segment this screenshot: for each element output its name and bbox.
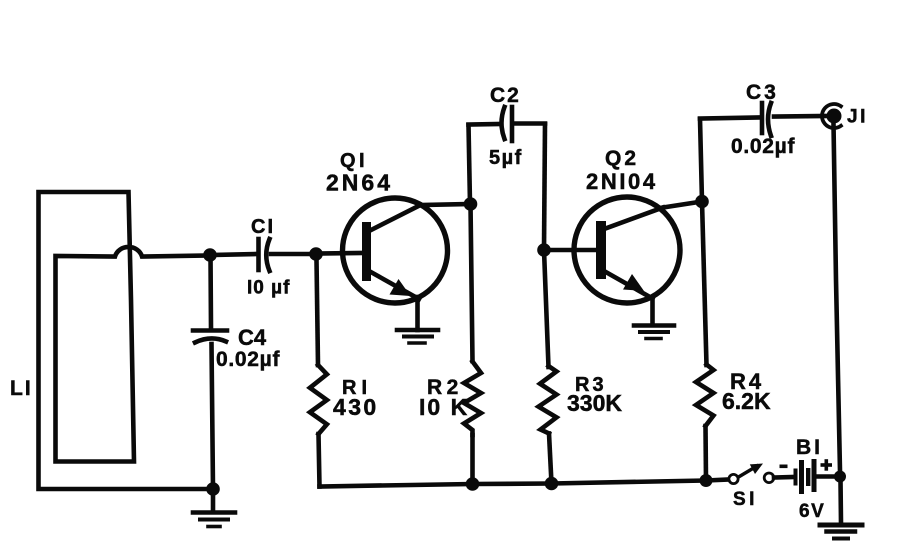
ground (L1/C4) [193,494,235,527]
node A (tuned input junction) [203,248,217,262]
node J (battery + / J1 return) [834,471,846,483]
wire (node down to ground) [838,480,843,523]
wire (switch to battery) [774,475,793,480]
svg-text:BI: BI [796,436,823,459]
wire (Q1 emitter to ground) [415,297,420,330]
capacitor C2 [469,107,546,141]
capacitor C4 [193,331,227,343]
node F (Q2 collector / C3 / R4) [695,195,709,209]
wire (Q2 collector to node) [663,202,702,208]
svg-text:C4: C4 [238,325,267,350]
node C (Q1 base / R1) [309,247,323,261]
capacitor C1 [259,239,270,271]
wire (node up to C3) [700,119,702,202]
wire (node to Q2 base) [544,248,596,253]
wire (Q1 collector to node) [421,204,471,205]
svg-text:Q2: Q2 [605,147,639,170]
ground (Q1 emitter) [397,330,438,343]
ground (battery) [820,525,862,539]
svg-text:I0 µf: I0 µf [247,278,290,299]
jack J1 [822,104,842,128]
resistor R1 [310,260,327,487]
coil L1 [39,192,214,489]
svg-text:330K: 330K [567,390,622,416]
wire (C2 to Q2 base node) [544,124,545,250]
resistor R4 [696,365,714,481]
svg-text:6V: 6V [799,501,825,522]
wire (C4 to ground bus) [212,344,214,489]
svg-text:2N64: 2N64 [326,170,393,196]
node B (ground junction) [206,482,220,496]
svg-text:2NI04: 2NI04 [586,169,658,194]
wire (junction to C4) [208,255,213,328]
node G (R2 to bus) [466,477,480,491]
wire (C1 to base node) [271,252,316,257]
wire (node down to R2) [471,204,473,361]
svg-text:C2: C2 [490,84,521,107]
node E (Q2 base / R3) [537,243,551,257]
svg-text:C3: C3 [746,81,779,104]
node D (Q1 collector / C2 / R2) [464,197,478,211]
wire (node down to R4) [702,202,707,366]
ground (Q2 emitter) [634,326,674,339]
svg-text:6.2K: 6.2K [722,388,771,414]
wire (node up to C2) [469,125,471,204]
transistor Q2 [574,197,680,303]
svg-text:5µf: 5µf [489,147,523,169]
battery B1 [780,459,833,494]
svg-text:430: 430 [333,394,379,420]
wire (node down to R3) [544,250,549,367]
capacitor C3 [700,103,827,136]
svg-text:SI: SI [733,489,758,510]
wire (node to Q1 base) [316,251,362,256]
resistor R2 [464,362,481,485]
resistor R3 [539,366,557,484]
switch S1 [729,464,774,484]
wire (junction to C1) [210,254,256,255]
node I (R4 to bus / switch) [700,474,713,487]
wire (battery to right node) [817,474,837,479]
wire (Q2 emitter to ground) [650,297,655,325]
svg-text:LI: LI [10,377,33,400]
svg-text:0.02µf: 0.02µf [731,135,795,158]
svg-text:I0 K: I0 K [419,394,469,420]
transistor Q1 [343,198,448,303]
svg-text:0.02µf: 0.02µf [216,348,280,371]
node H (R3 to bus) [545,477,559,491]
svg-text:CI: CI [251,216,275,238]
wire (bottom bus) [320,480,728,487]
svg-text:JI: JI [847,107,868,128]
wire (J1 down to battery node) [834,124,841,471]
